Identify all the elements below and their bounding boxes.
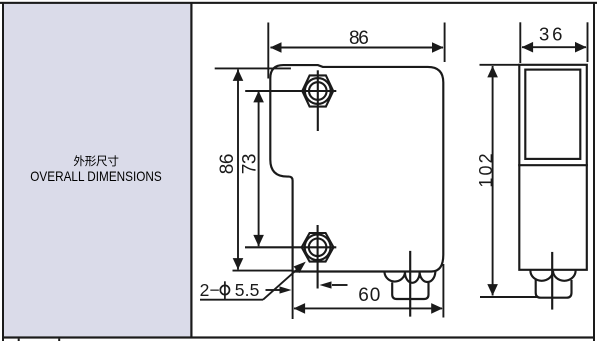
dim 60: dimension line bbox=[294, 307, 442, 309]
dim 86 left: bottom extension line bbox=[233, 270, 293, 272]
side connector block bbox=[536, 281, 572, 298]
dim 86 top: right extension line bbox=[444, 23, 446, 63]
hex nut bottom outer circle bbox=[305, 234, 331, 260]
svg-text:60: 60 bbox=[358, 285, 380, 306]
side connector scallops bbox=[530, 271, 575, 281]
hex nut top outer circle bbox=[305, 78, 331, 104]
table cell divider bbox=[190, 2, 192, 338]
svg-text:5.5: 5.5 bbox=[235, 280, 260, 300]
table right border bbox=[593, 2, 595, 341]
table top border bbox=[0, 2, 597, 4]
front connector block bbox=[392, 283, 428, 299]
table bottom border bbox=[2, 336, 595, 338]
dim 86 top: left arrowhead bbox=[270, 42, 282, 53]
next row cell stub 1 bbox=[18, 339, 20, 341]
table header cell background bbox=[3, 3, 191, 338]
leader 2-phi5.5: diagonal line bbox=[263, 269, 298, 300]
dim 86 top: right arrowhead bbox=[432, 42, 444, 53]
side view window bbox=[525, 70, 580, 159]
side view divider line bbox=[519, 164, 587, 166]
svg-text:86: 86 bbox=[349, 28, 369, 49]
hex nut top bbox=[302, 75, 333, 106]
svg-text:73: 73 bbox=[239, 154, 260, 175]
front connector centerline bbox=[409, 252, 411, 316]
next row cell stub 2 bbox=[58, 339, 60, 341]
dim 86 left: bottom arrowhead bbox=[233, 258, 244, 270]
dim 86 top: left extension line bbox=[267, 23, 269, 79]
dim 60: left extension line (lower-left edge extended) bbox=[292, 272, 294, 320]
hex nut top vertical centerline bbox=[317, 70, 319, 131]
dim 102: top arrowhead bbox=[487, 66, 498, 78]
dim 102: dimension line bbox=[492, 66, 494, 296]
small arrow pointing right at body lower-left edge bbox=[266, 289, 281, 291]
dim 73: top arrowhead bbox=[253, 91, 264, 103]
hex nut bottom horizontal centerline / 73 bottom extension bbox=[245, 246, 336, 248]
small arrow pointing left at hole centerline bbox=[332, 284, 348, 286]
svg-text:86: 86 bbox=[217, 154, 238, 175]
front view body outline bbox=[270, 65, 443, 271]
hex nut top inner circle bbox=[309, 82, 327, 100]
svg-text:OVERALL DIMENSIONS: OVERALL DIMENSIONS bbox=[30, 168, 161, 184]
dim 36: right arrowhead bbox=[575, 42, 587, 53]
dim 102: top extension line bbox=[480, 64, 520, 66]
hex nut bottom bbox=[302, 233, 334, 262]
dim 73: bottom arrowhead bbox=[253, 235, 264, 247]
dim 36: left extension line bbox=[519, 22, 521, 63]
table left border bbox=[2, 2, 4, 341]
dim 60: right arrowhead bbox=[431, 303, 443, 314]
dim 36: dimension line bbox=[522, 46, 586, 48]
dim 60: right extension line bbox=[442, 264, 444, 318]
svg-text:102: 102 bbox=[476, 153, 496, 187]
leader 2-phi5.5: arrowhead bbox=[294, 262, 306, 274]
dim 36: right extension line bbox=[587, 22, 589, 62]
dim 102: bottom extension line bbox=[480, 296, 537, 298]
dim 86 left: dimension line bbox=[237, 70, 239, 270]
dim 60: left arrowhead bbox=[294, 303, 306, 314]
dim 86 left: top arrowhead bbox=[233, 69, 244, 81]
dim 73: dimension line bbox=[258, 91, 260, 246]
dim 86 top: dimension line bbox=[271, 47, 444, 49]
dim 86 left: top extension line bbox=[215, 67, 291, 69]
hex nut bottom inner circle bbox=[309, 239, 327, 257]
hex nut top horizontal centerline / 73 top extension bbox=[245, 90, 336, 92]
label 2-phi5.5: phi symbol stem bbox=[224, 281, 226, 299]
side view body bbox=[519, 65, 587, 270]
leader 2-phi5.5: underline bbox=[200, 299, 263, 301]
front connector scallops bbox=[385, 273, 436, 283]
side connector centerline bbox=[551, 253, 553, 309]
hex nut bottom vertical centerline bbox=[317, 225, 319, 289]
label 2-phi5.5: phi symbol circle bbox=[220, 285, 229, 294]
dim 36: left arrowhead bbox=[522, 42, 534, 53]
svg-text:2−: 2− bbox=[200, 280, 220, 300]
dim 102: bottom arrowhead bbox=[487, 284, 498, 296]
svg-text:外形尺寸: 外形尺寸 bbox=[73, 154, 119, 168]
